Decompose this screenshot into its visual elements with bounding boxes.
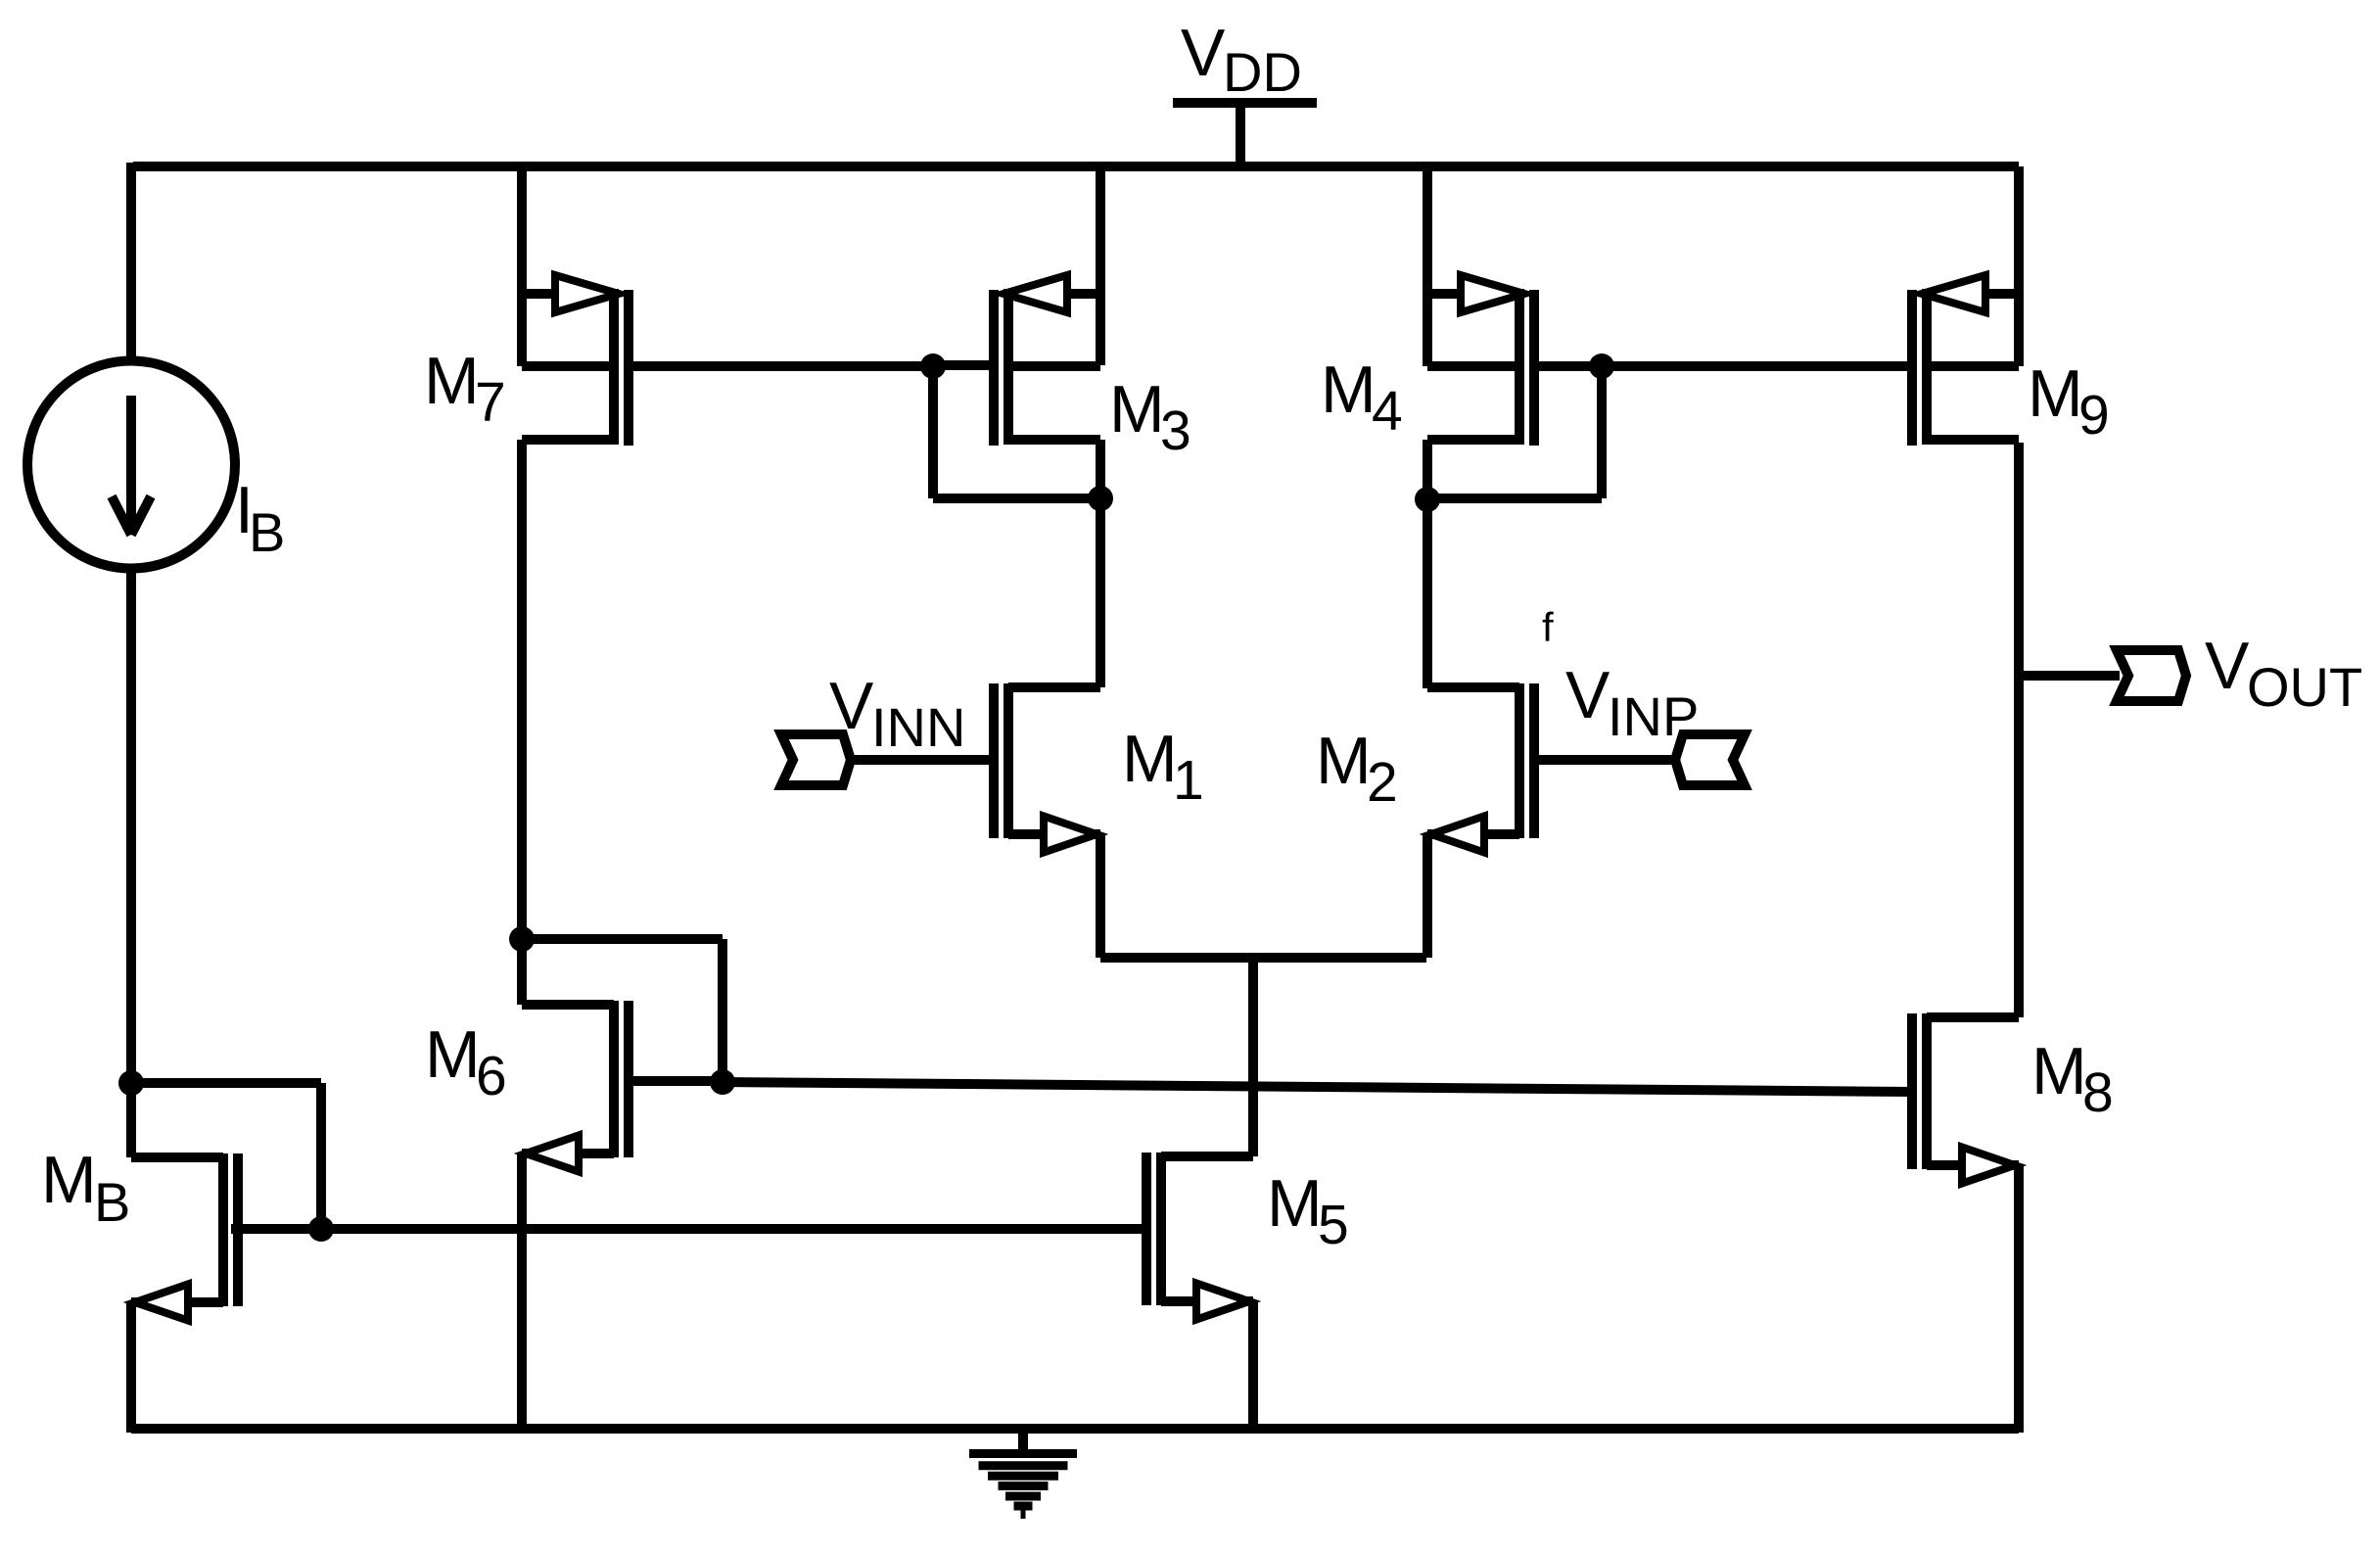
- svg-text:INN: INN: [871, 696, 965, 758]
- svg-text:OUT: OUT: [2247, 656, 2362, 718]
- svg-text:M: M: [424, 344, 480, 418]
- svg-text:M: M: [1321, 353, 1377, 427]
- svg-text:M: M: [2028, 356, 2083, 431]
- svg-text:M: M: [1109, 372, 1165, 447]
- svg-text:7: 7: [475, 371, 506, 434]
- svg-text:V: V: [2205, 629, 2250, 703]
- svg-text:M: M: [1316, 724, 1372, 798]
- svg-text:M: M: [1267, 1166, 1323, 1241]
- svg-text:9: 9: [2078, 384, 2110, 447]
- svg-text:DD: DD: [1223, 41, 1302, 103]
- svg-text:M: M: [41, 1143, 97, 1217]
- svg-text:4: 4: [1372, 380, 1403, 443]
- svg-text:M: M: [1122, 722, 1178, 796]
- svg-text:M: M: [425, 1017, 481, 1092]
- svg-text:INP: INP: [1608, 685, 1699, 747]
- svg-text:6: 6: [476, 1045, 507, 1107]
- svg-text:V: V: [829, 669, 874, 743]
- svg-text:8: 8: [2082, 1061, 2114, 1124]
- svg-text:V: V: [1565, 658, 1610, 732]
- svg-text:3: 3: [1160, 400, 1191, 462]
- svg-text:V: V: [1181, 16, 1226, 90]
- svg-text:1: 1: [1173, 749, 1204, 812]
- svg-text:5: 5: [1318, 1194, 1349, 1256]
- svg-text:B: B: [94, 1171, 130, 1233]
- svg-text:2: 2: [1367, 751, 1398, 814]
- svg-text:f: f: [1542, 604, 1554, 650]
- svg-text:B: B: [249, 501, 285, 563]
- svg-text:M: M: [2031, 1034, 2087, 1108]
